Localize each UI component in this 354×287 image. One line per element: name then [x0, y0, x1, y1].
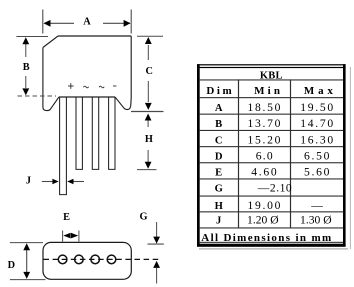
svg-text:4.60: 4.60: [251, 166, 278, 179]
svg-text:Max: Max: [304, 85, 337, 97]
svg-text:6.50: 6.50: [304, 149, 331, 162]
svg-text:1.20 Ø: 1.20 Ø: [247, 214, 279, 227]
svg-text:19.50: 19.50: [300, 101, 335, 114]
svg-text:G: G: [139, 212, 147, 223]
svg-text:Min: Min: [254, 85, 283, 97]
svg-text:D: D: [8, 260, 15, 271]
svg-text:—: —: [310, 199, 323, 212]
svg-text:E: E: [215, 168, 222, 179]
svg-text:G: G: [215, 184, 223, 195]
svg-text:B: B: [23, 62, 30, 73]
svg-text:6.0: 6.0: [256, 149, 274, 162]
svg-text:5.60: 5.60: [304, 166, 331, 179]
svg-text:H: H: [215, 201, 224, 212]
svg-text:1.30 Ø: 1.30 Ø: [300, 214, 332, 227]
svg-text:J: J: [216, 216, 221, 227]
svg-text:All Dimensions in mm: All Dimensions in mm: [201, 232, 332, 244]
svg-text:18.50: 18.50: [248, 101, 283, 114]
svg-text:13.70: 13.70: [248, 117, 283, 130]
svg-text:14.70: 14.70: [300, 117, 335, 130]
svg-text:A: A: [215, 103, 223, 114]
svg-text:15.20: 15.20: [248, 133, 283, 146]
svg-text:C: C: [215, 135, 223, 146]
svg-text:A: A: [83, 16, 91, 27]
svg-text:B: B: [215, 119, 222, 130]
svg-text:E: E: [63, 212, 70, 223]
svg-text:Dim: Dim: [206, 85, 234, 97]
svg-text:—2.10: —2.10: [257, 182, 292, 195]
svg-text:D: D: [215, 151, 223, 162]
svg-text:KBL: KBL: [260, 70, 283, 81]
svg-text:19.00: 19.00: [248, 199, 283, 212]
svg-text:J: J: [26, 176, 31, 187]
svg-text:H: H: [145, 134, 153, 145]
svg-text:16.30: 16.30: [300, 133, 335, 146]
svg-text:C: C: [145, 66, 152, 77]
